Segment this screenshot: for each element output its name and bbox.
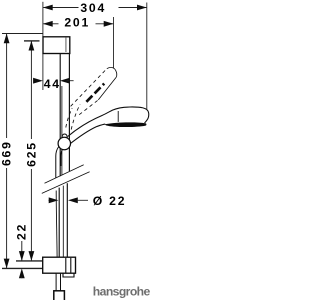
handshower solid: spray face sliver [105, 122, 147, 127]
phantom head spray face sliver [86, 84, 104, 102]
bracket: bottom wall bracket [43, 257, 76, 273]
break symbol diagonals [42, 165, 90, 194]
svg-text:Ø 22: Ø 22 [93, 194, 127, 208]
svg-text:hansgrohe: hansgrohe [93, 284, 151, 298]
bar: wall bar tube (above break) [60, 54, 69, 177]
wire: extension line for 304 [146, 3, 148, 110]
hose front edge line along bar (below break) [62, 186, 64, 257]
dimension 44 [33, 78, 73, 84]
handshower solid: handle top edge into head top edge [68, 107, 143, 137]
phantom head (dash-dot capsule) [71, 67, 117, 114]
hose stem below bracket [56, 274, 60, 291]
wire: extension line y=33.5 for 669 top [2, 33, 43, 35]
dimension 22 (bottom) [19, 241, 25, 278]
bar end stub below bracket [63, 258, 74, 277]
holder knob [58, 137, 70, 149]
hose front edge line along bar (above break) [61, 86, 63, 175]
dimension 669 [4, 34, 10, 269]
hose below knob [56, 147, 63, 258]
wire: extension line y=40.7 for 625 top [24, 40, 40, 42]
holder neck [62, 134, 67, 138]
hose end fitting [54, 291, 65, 300]
dimension 625 [29, 41, 35, 261]
phantom handle dashed lines [66, 104, 80, 129]
wire: extension line for 201 [113, 17, 115, 68]
svg-text:22: 22 [15, 223, 29, 240]
handshower solid: head right cap [143, 108, 149, 123]
wire: extension line y=260.9 bottom [16, 260, 43, 262]
svg-text:625: 625 [24, 141, 38, 167]
handshower solid: handle bottom edge [69, 124, 105, 145]
handshower head tick detail [117, 111, 119, 122]
wire: wall extension line top [42, 2, 44, 37]
bracket: top wall bracket [43, 37, 70, 54]
svg-text:669: 669 [0, 140, 14, 166]
dimension 304 [43, 5, 147, 11]
bar: wall bar tube (below break, offset) [59, 183, 67, 257]
dimension diameter 22 [49, 197, 89, 203]
wire: wall extension line below bracket (44 dim) [42, 54, 44, 91]
dimension 201 [43, 21, 114, 27]
svg-text:44: 44 [44, 77, 61, 91]
bracket top inner gray line [65, 37, 67, 52]
svg-text:304: 304 [80, 1, 106, 15]
svg-text:201: 201 [64, 16, 90, 30]
wire: extension line y=268.4 bottom [2, 267, 43, 269]
